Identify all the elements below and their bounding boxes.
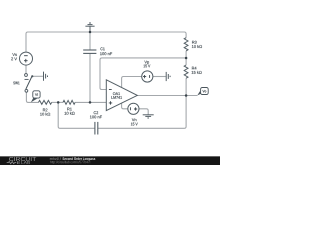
label Vn value: [131, 123, 138, 126]
node top ground junction: [89, 31, 92, 34]
voltage source Vp: [142, 71, 153, 82]
wire R4 bottom to output node: [185, 78, 187, 95]
watermark bar: [0, 156, 220, 165]
label R1 value: [65, 112, 75, 115]
switch SW1: [25, 74, 34, 93]
voltage source Vn: [128, 103, 139, 114]
resistor R3: [184, 38, 188, 51]
label Vs value: [11, 57, 17, 60]
label R4 name: [192, 67, 197, 70]
label Vp value: [144, 65, 151, 68]
probe Vi text: [35, 93, 38, 96]
label Vs name: [12, 53, 17, 56]
wire R3 bottom to R4 top through feedback node: [185, 51, 187, 65]
label R3 name: [192, 41, 197, 44]
watermark slash: [60, 157, 61, 160]
label C2 name: [94, 111, 98, 114]
wire op-amp V+ pin up and right to Vp: [122, 77, 142, 88]
op-amp OA1 triangle: [106, 80, 137, 111]
label R2 name: [43, 109, 47, 112]
wire R1 to op-amp + input through node B: [75, 101, 106, 103]
label C1 name: [100, 47, 104, 50]
label OA1 value: [111, 96, 122, 99]
probe Vo flag: [197, 88, 208, 96]
wire op-amp output to Vo anchor: [137, 95, 197, 97]
capacitor C1: [83, 50, 96, 53]
label OA1 name: [113, 92, 120, 95]
op-amp + input marker: [109, 101, 112, 104]
label R2 value: [40, 113, 50, 116]
ground top (pointing up): [85, 23, 94, 32]
wire Vp right to ground: [153, 76, 166, 78]
resistor R1: [63, 100, 75, 104]
wire node A down along bottom rail to C2 left: [58, 102, 95, 128]
probe Vo text: [203, 90, 207, 92]
watermark author: [50, 157, 59, 160]
watermark logo LAB: [21, 161, 30, 164]
label Vn name: [132, 118, 137, 121]
op-amp - input marker: [109, 89, 112, 91]
wire C2 right along bottom rail up to output node: [98, 96, 186, 129]
wire top ground rail from Vs top to R3 top: [26, 32, 186, 52]
wire R2 to R1 through node A: [52, 101, 63, 103]
wire C1 bottom stem to node B: [89, 53, 91, 102]
ground right of Vp (pointing right): [166, 72, 170, 81]
label R4 value: [192, 71, 202, 74]
capacitor C2: [95, 122, 98, 135]
label R1 name: [67, 108, 71, 111]
label R3 value: [192, 45, 202, 48]
wire Vn right to ground: [139, 109, 148, 115]
wire Vs bottom to SW1 top throw: [25, 65, 27, 73]
label Vp name: [144, 61, 149, 65]
wire SW1 right throw to ground: [33, 75, 43, 77]
node output junction: [185, 94, 188, 97]
ground right of SW1 (pointing right): [44, 72, 48, 81]
voltage source Vs: [20, 52, 33, 65]
node A R2/R1/C2 junction: [57, 101, 60, 104]
wire op-amp V- pin down and right to Vn: [122, 103, 128, 109]
node feedback divider junction: [185, 57, 188, 60]
watermark logo CIRCUIT: [9, 157, 36, 161]
wire feedback node left and down to op-amp - input: [100, 58, 186, 90]
watermark logo squiggle: [7, 162, 17, 164]
wire SW1 common down and right to R2: [26, 92, 38, 102]
label C2 value: [90, 116, 102, 119]
wire C1 top stem: [89, 32, 91, 50]
ground below Vn (pointing down): [143, 115, 154, 118]
node B R1/C1/op-amp junction: [89, 101, 92, 104]
label C1 value: [100, 52, 112, 55]
resistor R2: [39, 100, 52, 104]
watermark title: [62, 157, 95, 160]
probe Vi flag: [31, 91, 40, 102]
resistor R4: [184, 65, 188, 78]
label SW1: [13, 82, 19, 85]
watermark url: [50, 161, 90, 164]
